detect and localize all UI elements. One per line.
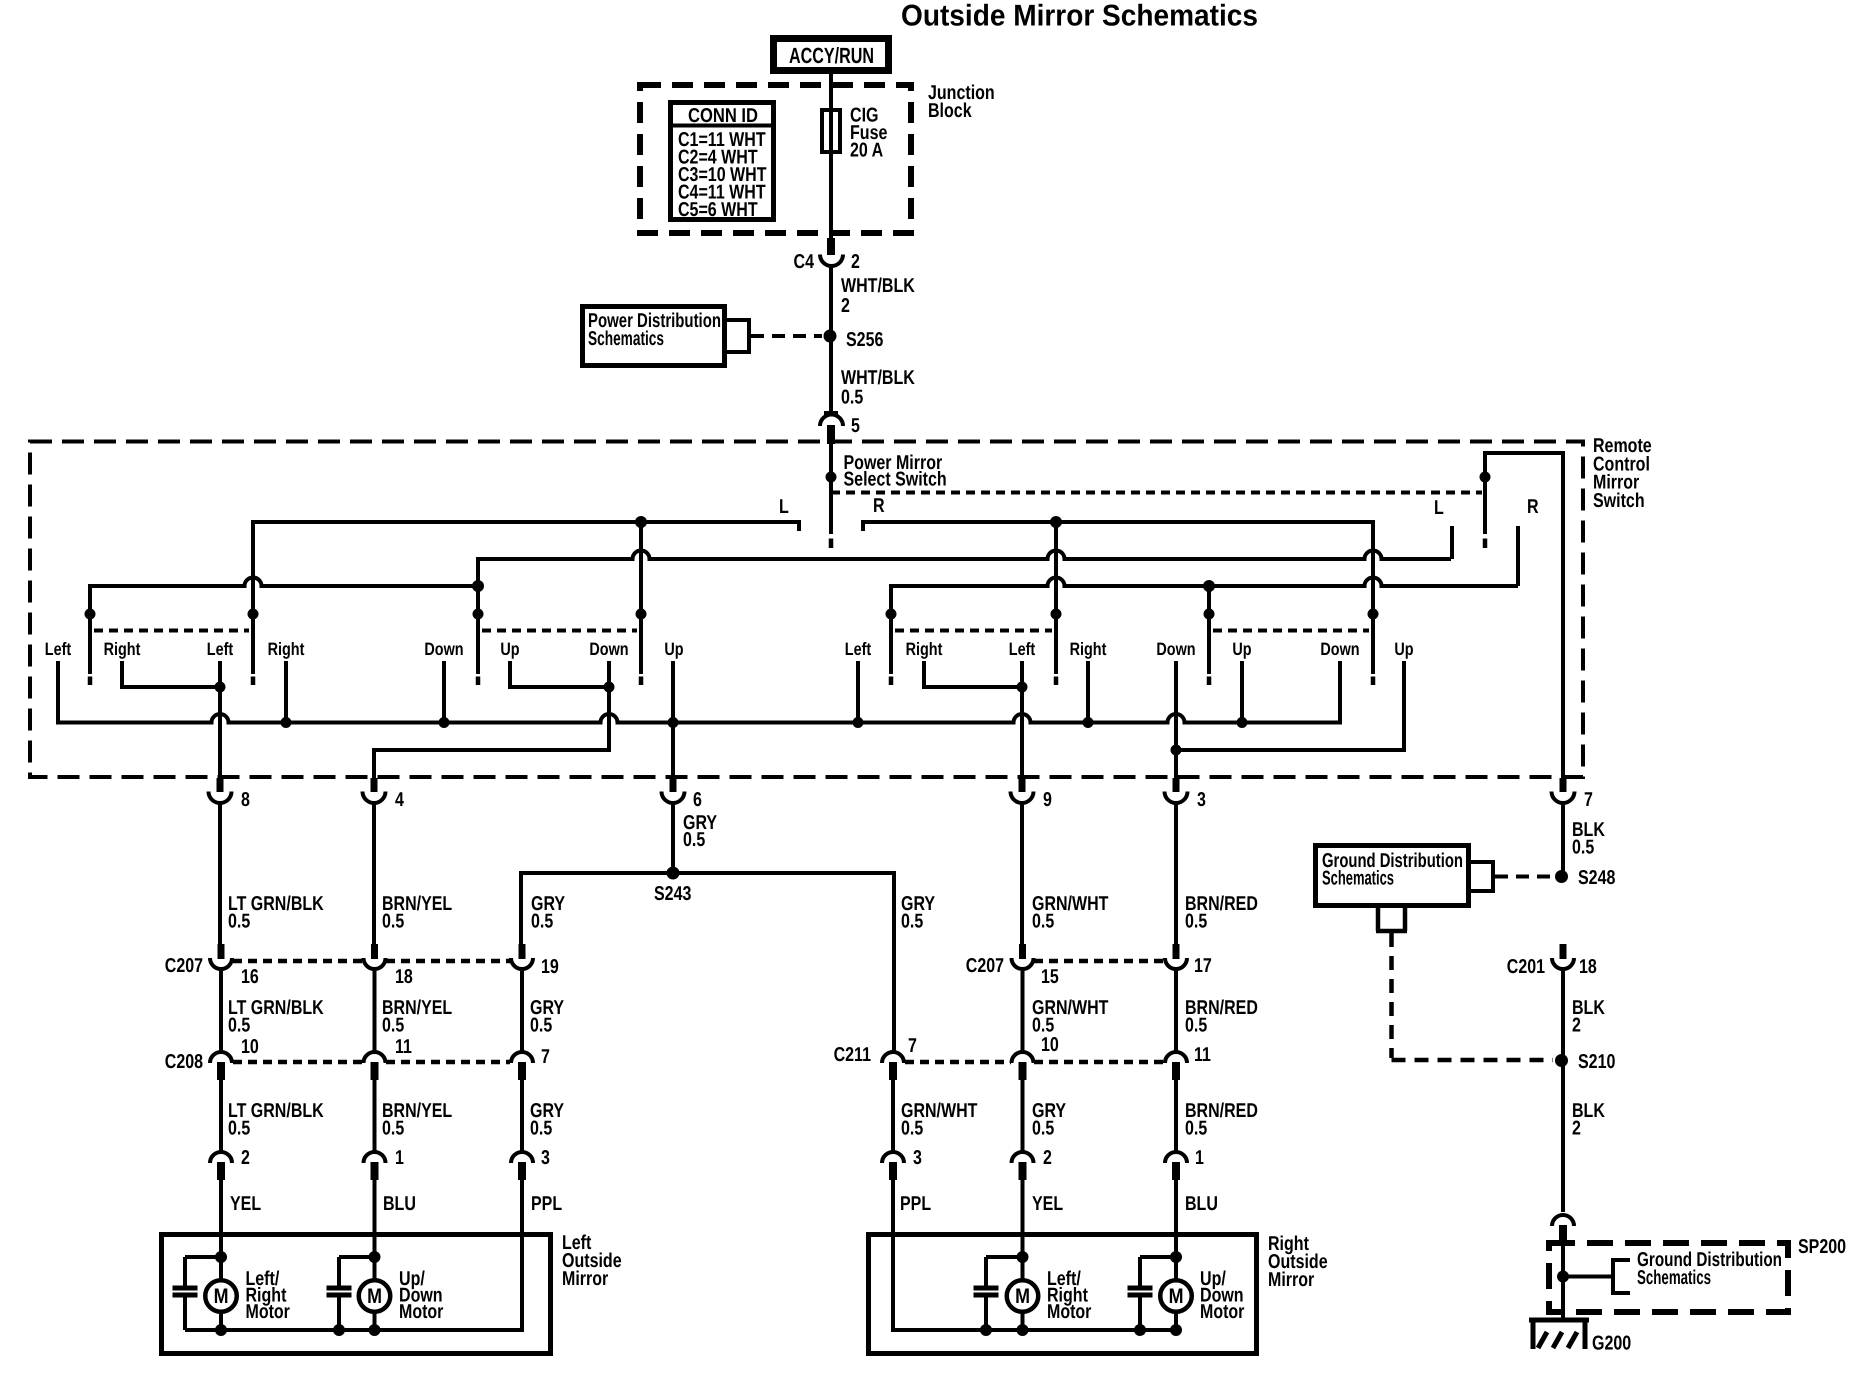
svg-text:S210: S210 <box>1578 1051 1615 1073</box>
svg-text:0.5: 0.5 <box>1185 1015 1207 1037</box>
svg-text:0.5: 0.5 <box>1032 1118 1054 1140</box>
svg-text:0.5: 0.5 <box>841 387 863 409</box>
svg-text:M: M <box>1169 1285 1184 1308</box>
svg-text:0.5: 0.5 <box>901 1118 923 1140</box>
svg-text:WHT/BLK: WHT/BLK <box>841 275 915 297</box>
svg-text:17: 17 <box>1194 955 1212 977</box>
svg-text:Up: Up <box>664 639 683 659</box>
svg-text:C5=6 WHT: C5=6 WHT <box>678 199 758 221</box>
svg-text:Left: Left <box>45 639 71 659</box>
svg-text:0.5: 0.5 <box>382 1015 404 1037</box>
svg-text:M: M <box>214 1285 229 1308</box>
svg-text:Up: Up <box>1232 639 1251 659</box>
svg-text:Motor: Motor <box>1200 1301 1245 1323</box>
svg-text:6: 6 <box>693 789 702 811</box>
svg-text:Outside Mirror Schematics: Outside Mirror Schematics <box>901 0 1258 33</box>
svg-text:0.5: 0.5 <box>530 1118 552 1140</box>
svg-text:0.5: 0.5 <box>1185 1118 1207 1140</box>
svg-text:C208: C208 <box>165 1051 203 1073</box>
svg-text:S256: S256 <box>846 329 883 351</box>
svg-text:C201: C201 <box>1507 956 1545 978</box>
svg-text:18: 18 <box>395 966 413 988</box>
svg-text:Right: Right <box>906 639 943 659</box>
svg-text:1: 1 <box>395 1147 404 1169</box>
svg-text:Left: Left <box>207 639 233 659</box>
svg-text:C4: C4 <box>794 251 815 273</box>
svg-text:Schematics: Schematics <box>1322 868 1394 890</box>
svg-text:C211: C211 <box>834 1044 871 1066</box>
svg-text:2: 2 <box>841 295 850 317</box>
svg-text:YEL: YEL <box>230 1193 261 1215</box>
svg-text:Motor: Motor <box>399 1301 444 1323</box>
svg-text:0.5: 0.5 <box>228 1118 250 1140</box>
svg-text:8: 8 <box>241 789 250 811</box>
svg-text:0.5: 0.5 <box>228 1015 250 1037</box>
svg-text:L: L <box>1434 497 1444 519</box>
svg-text:5: 5 <box>851 415 860 437</box>
svg-text:2: 2 <box>1572 1015 1581 1037</box>
svg-text:M: M <box>1015 1285 1030 1308</box>
svg-text:10: 10 <box>1041 1034 1059 1056</box>
svg-text:PPL: PPL <box>531 1193 562 1215</box>
svg-text:S248: S248 <box>1578 867 1615 889</box>
svg-text:19: 19 <box>541 956 559 978</box>
svg-text:0.5: 0.5 <box>1032 911 1054 933</box>
svg-text:Schematics: Schematics <box>1637 1267 1711 1289</box>
svg-text:S243: S243 <box>654 883 691 905</box>
svg-text:BLU: BLU <box>383 1193 416 1215</box>
svg-text:Motor: Motor <box>1047 1301 1092 1323</box>
svg-text:Mirror: Mirror <box>562 1268 608 1290</box>
svg-text:Left: Left <box>1009 639 1035 659</box>
svg-text:15: 15 <box>1041 966 1059 988</box>
svg-text:R: R <box>1527 496 1539 518</box>
svg-text:Up: Up <box>1394 639 1413 659</box>
svg-text:2: 2 <box>241 1147 250 1169</box>
svg-text:0.5: 0.5 <box>901 911 923 933</box>
svg-text:4: 4 <box>395 789 405 811</box>
svg-text:0.5: 0.5 <box>1185 911 1207 933</box>
svg-text:0.5: 0.5 <box>382 1118 404 1140</box>
svg-text:SP200: SP200 <box>1798 1236 1846 1258</box>
svg-text:0.5: 0.5 <box>530 1015 552 1037</box>
svg-text:11: 11 <box>395 1036 412 1058</box>
svg-text:Down: Down <box>424 639 463 659</box>
svg-text:0.5: 0.5 <box>1572 837 1594 859</box>
svg-text:C207: C207 <box>165 955 203 977</box>
svg-text:0.5: 0.5 <box>382 911 404 933</box>
svg-text:2: 2 <box>1043 1147 1052 1169</box>
svg-text:Right: Right <box>104 639 141 659</box>
svg-text:L: L <box>779 496 789 518</box>
svg-text:YEL: YEL <box>1032 1193 1063 1215</box>
svg-text:0.5: 0.5 <box>228 911 250 933</box>
svg-text:CONN ID: CONN ID <box>688 105 758 127</box>
svg-text:Down: Down <box>1156 639 1195 659</box>
svg-text:Switch: Switch <box>1593 490 1645 512</box>
svg-text:3: 3 <box>541 1147 550 1169</box>
svg-text:16: 16 <box>241 966 259 988</box>
svg-text:2: 2 <box>1572 1118 1581 1140</box>
svg-text:G200: G200 <box>1592 1333 1631 1355</box>
svg-text:11: 11 <box>1194 1044 1211 1066</box>
svg-text:Right: Right <box>1070 639 1107 659</box>
svg-text:Select Switch: Select Switch <box>844 469 947 491</box>
svg-text:18: 18 <box>1579 956 1597 978</box>
svg-text:0.5: 0.5 <box>683 829 705 851</box>
svg-text:7: 7 <box>1584 789 1593 811</box>
svg-text:PPL: PPL <box>900 1193 931 1215</box>
svg-text:ACCY/RUN: ACCY/RUN <box>789 43 874 68</box>
svg-text:Block: Block <box>928 100 972 122</box>
svg-text:Down: Down <box>589 639 628 659</box>
svg-text:BLU: BLU <box>1185 1193 1218 1215</box>
svg-text:3: 3 <box>1197 789 1206 811</box>
svg-text:0.5: 0.5 <box>531 911 553 933</box>
svg-text:Left: Left <box>845 639 871 659</box>
svg-text:Schematics: Schematics <box>588 328 664 350</box>
svg-text:7: 7 <box>541 1046 550 1068</box>
svg-text:9: 9 <box>1043 789 1052 811</box>
svg-text:Down: Down <box>1320 639 1359 659</box>
svg-text:7: 7 <box>908 1035 917 1057</box>
svg-text:3: 3 <box>913 1147 922 1169</box>
svg-text:1: 1 <box>1195 1147 1204 1169</box>
svg-text:20 A: 20 A <box>850 140 883 162</box>
svg-text:C207: C207 <box>966 955 1004 977</box>
svg-text:Mirror: Mirror <box>1268 1269 1314 1291</box>
svg-text:R: R <box>873 495 885 517</box>
svg-text:M: M <box>367 1285 382 1308</box>
svg-text:Right: Right <box>268 639 305 659</box>
svg-text:2: 2 <box>851 251 860 273</box>
svg-text:Up: Up <box>500 639 519 659</box>
svg-text:Motor: Motor <box>246 1301 291 1323</box>
svg-text:10: 10 <box>241 1036 259 1058</box>
